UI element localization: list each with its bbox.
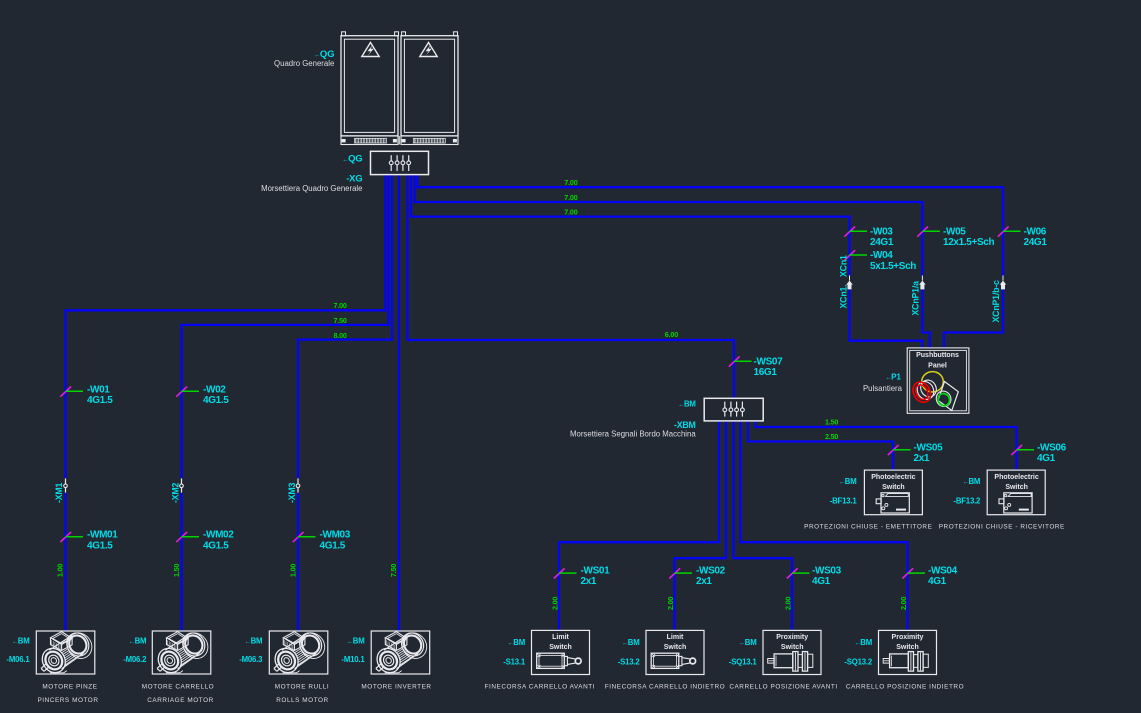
- svg-text:←BM: ←BM: [622, 638, 640, 647]
- svg-text:←BM: ←BM: [129, 637, 147, 646]
- svg-text:XCn1.: XCn1.: [838, 285, 848, 309]
- svg-text:1.50: 1.50: [825, 418, 838, 427]
- svg-text:8.00: 8.00: [333, 331, 346, 340]
- svg-text:7.00: 7.00: [564, 208, 577, 217]
- svg-text:-WS02: -WS02: [696, 566, 726, 577]
- svg-text:7.00: 7.00: [333, 301, 346, 310]
- svg-text:←BM: ←BM: [245, 637, 263, 646]
- svg-text:-W04: -W04: [870, 250, 893, 261]
- svg-text:FINECORSA CARRELLO INDIETRO: FINECORSA CARRELLO INDIETRO: [605, 684, 725, 691]
- svg-text:-M10.1: -M10.1: [341, 655, 365, 664]
- svg-text:-WS06: -WS06: [1037, 443, 1067, 454]
- svg-text:Pulsantiera: Pulsantiera: [863, 384, 903, 393]
- svg-text:2.00: 2.00: [783, 597, 792, 610]
- svg-text:-W02: -W02: [203, 384, 226, 395]
- svg-text:Proximity: Proximity: [892, 634, 924, 641]
- svg-text:PROTEZIONI CHIUSE - RICEVITORE: PROTEZIONI CHIUSE - RICEVITORE: [939, 523, 1065, 530]
- svg-text:5x1.5+Sch: 5x1.5+Sch: [870, 261, 916, 272]
- svg-text:XCnP1/b-c: XCnP1/b-c: [991, 280, 1001, 323]
- svg-text:MOTORE RULLI: MOTORE RULLI: [275, 684, 329, 691]
- svg-text:-SQ13.2: -SQ13.2: [844, 658, 873, 667]
- svg-text:-WS01: -WS01: [581, 566, 611, 577]
- svg-text:PROTEZIONI CHIUSE - EMETTITORE: PROTEZIONI CHIUSE - EMETTITORE: [804, 523, 932, 530]
- svg-text:Photoelectric: Photoelectric: [871, 474, 915, 481]
- svg-text:CARRELLO POSIZIONE INDIETRO: CARRELLO POSIZIONE INDIETRO: [846, 684, 964, 691]
- svg-text:4G1.5: 4G1.5: [87, 395, 113, 406]
- svg-text:Pushbuttons: Pushbuttons: [916, 352, 959, 359]
- svg-text:-W05: -W05: [943, 227, 966, 238]
- svg-text:-WS05: -WS05: [914, 443, 944, 454]
- svg-text:-M06.2: -M06.2: [123, 655, 147, 664]
- svg-text:-WM01: -WM01: [87, 530, 118, 541]
- svg-text:7.50: 7.50: [389, 564, 398, 577]
- svg-text:←BM: ←BM: [962, 477, 980, 486]
- svg-text:6.00: 6.00: [665, 330, 678, 339]
- svg-text:-M06.3: -M06.3: [239, 655, 263, 664]
- svg-text:PINCERS MOTOR: PINCERS MOTOR: [37, 697, 98, 704]
- svg-text:2.00: 2.00: [551, 597, 560, 610]
- svg-text:16G1: 16G1: [754, 367, 778, 378]
- svg-text:Morsettiera Segnali Bordo Macc: Morsettiera Segnali Bordo Macchina: [570, 429, 696, 438]
- svg-text:Morsettiera Quadro Generale: Morsettiera Quadro Generale: [261, 184, 362, 193]
- svg-text:12x1.5+Sch: 12x1.5+Sch: [943, 237, 995, 248]
- svg-text:←BM: ←BM: [839, 477, 857, 486]
- svg-text:2.50: 2.50: [825, 432, 838, 441]
- svg-text:-WM03: -WM03: [320, 530, 351, 541]
- svg-text:CARRELLO POSIZIONE AVANTI: CARRELLO POSIZIONE AVANTI: [729, 684, 837, 691]
- svg-text:2.00: 2.00: [899, 597, 908, 610]
- svg-text:7.50: 7.50: [333, 316, 346, 325]
- svg-text:-XM2: -XM2: [170, 482, 180, 503]
- svg-text:-XG: -XG: [346, 173, 362, 184]
- svg-text:←BM: ←BM: [678, 399, 696, 408]
- svg-text:1.00: 1.00: [289, 564, 298, 577]
- svg-text:4G1: 4G1: [812, 576, 831, 587]
- svg-text:XCn1: XCn1: [838, 255, 848, 277]
- svg-text:-W01: -W01: [87, 384, 110, 395]
- svg-text:4G1.5: 4G1.5: [87, 540, 113, 551]
- svg-text:4G1.5: 4G1.5: [203, 395, 229, 406]
- svg-text:7.00: 7.00: [564, 178, 577, 187]
- svg-text:-W06: -W06: [1024, 227, 1047, 238]
- svg-text:24G1: 24G1: [870, 237, 894, 248]
- svg-text:Switch: Switch: [882, 484, 905, 491]
- svg-text:Quadro Generale: Quadro Generale: [274, 59, 334, 68]
- svg-text:-BF13.2: -BF13.2: [953, 497, 981, 506]
- svg-text:←BM: ←BM: [854, 638, 872, 647]
- svg-text:-XM3: -XM3: [287, 482, 297, 503]
- svg-text:←BM: ←BM: [739, 638, 757, 647]
- svg-text:Photoelectric: Photoelectric: [994, 474, 1038, 481]
- svg-text:Switch: Switch: [1005, 484, 1028, 491]
- svg-text:-WS07: -WS07: [754, 356, 784, 367]
- svg-text:1.50: 1.50: [172, 564, 181, 577]
- svg-text:←BM: ←BM: [347, 637, 365, 646]
- svg-text:XCnP1/a: XCnP1/a: [911, 281, 921, 316]
- svg-text:2x1: 2x1: [696, 576, 712, 587]
- svg-text:4G1.5: 4G1.5: [320, 540, 346, 551]
- svg-text:Panel: Panel: [928, 363, 947, 370]
- svg-text:7.00: 7.00: [564, 193, 577, 202]
- svg-text:2x1: 2x1: [581, 576, 597, 587]
- svg-text:ROLLS MOTOR: ROLLS MOTOR: [276, 697, 328, 704]
- svg-text:2x1: 2x1: [914, 453, 930, 464]
- svg-text:-M06.1: -M06.1: [6, 655, 30, 664]
- svg-text:-SQ13.1: -SQ13.1: [729, 658, 758, 667]
- svg-text:←P1: ←P1: [885, 372, 901, 381]
- svg-text:Limit: Limit: [552, 634, 569, 641]
- svg-text:-BF13.1: -BF13.1: [830, 497, 858, 506]
- svg-text:-WS03: -WS03: [812, 566, 842, 577]
- svg-text:←BM: ←BM: [12, 637, 30, 646]
- svg-text:Proximity: Proximity: [776, 634, 808, 641]
- svg-text:MOTORE INVERTER: MOTORE INVERTER: [361, 684, 431, 691]
- svg-text:CARRIAGE MOTOR: CARRIAGE MOTOR: [147, 697, 214, 704]
- svg-text:4G1.5: 4G1.5: [203, 540, 229, 551]
- svg-text:←BM: ←BM: [507, 638, 525, 647]
- svg-text:24G1: 24G1: [1024, 237, 1048, 248]
- svg-text:-S13.2: -S13.2: [618, 658, 641, 667]
- svg-text:Switch: Switch: [549, 644, 572, 651]
- svg-text:Switch: Switch: [896, 644, 919, 651]
- svg-text:Limit: Limit: [667, 634, 684, 641]
- svg-text:MOTORE CARRELLO: MOTORE CARRELLO: [142, 684, 214, 691]
- svg-text:1.00: 1.00: [56, 564, 65, 577]
- svg-text:-W03: -W03: [870, 227, 893, 238]
- svg-text:MOTORE PINZE: MOTORE PINZE: [42, 684, 97, 691]
- svg-text:4G1: 4G1: [1037, 453, 1056, 464]
- svg-text:4G1: 4G1: [928, 576, 947, 587]
- svg-text:Switch: Switch: [664, 644, 687, 651]
- svg-text:-WS04: -WS04: [928, 566, 958, 577]
- svg-text:2.00: 2.00: [666, 597, 675, 610]
- svg-text:-WM02: -WM02: [203, 530, 234, 541]
- svg-text:-XM1: -XM1: [54, 482, 64, 503]
- svg-text:FINECORSA CARRELLO AVANTI: FINECORSA CARRELLO AVANTI: [485, 684, 595, 691]
- svg-text:Switch: Switch: [781, 644, 804, 651]
- svg-text:-S13.1: -S13.1: [503, 658, 526, 667]
